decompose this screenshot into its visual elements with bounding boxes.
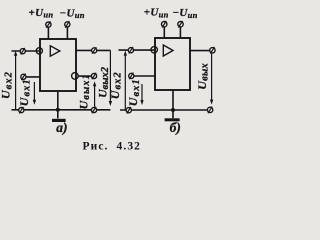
terminal -Uип (b): [178, 21, 183, 28]
voltage arrow Uвых1 (a): [93, 81, 96, 107]
inversion circle at input (b): [151, 47, 157, 53]
voltage arrow Uвых2 (a): [109, 50, 112, 106]
terminal output 1 (a): [92, 47, 97, 54]
terminal common right (b): [207, 107, 212, 114]
svg-text:4.32: 4.32: [117, 141, 142, 153]
svg-text:Uвх1: Uвх1: [126, 78, 142, 106]
svg-text:б): б): [170, 120, 181, 135]
op-amp U1 amplifier triangle: [50, 46, 60, 56]
ground (a): [52, 119, 66, 122]
terminal output 2 (a): [91, 73, 96, 80]
wire: inverting input (b): [119, 49, 156, 51]
op-amp U1 body (circuit a): [40, 39, 76, 91]
wire: output 2 (a): [78, 75, 91, 77]
wire: +supply stub (b): [163, 27, 165, 38]
terminal -Uип (a): [65, 21, 70, 28]
terminal output (b): [210, 47, 215, 54]
svg-text:а): а): [56, 120, 67, 135]
terminal input 1 (b): [129, 73, 134, 80]
svg-text:Рис.: Рис.: [83, 141, 109, 153]
terminal input 1 (a): [21, 74, 26, 81]
wire: output (b): [190, 50, 210, 52]
svg-text:+Uип: +Uип: [144, 7, 169, 20]
wire: -supply stub (a): [66, 27, 68, 39]
terminal common left (a): [19, 107, 24, 114]
wire: output 1 (a): [76, 49, 110, 51]
op-amp U2 body (circuit b): [155, 38, 190, 90]
svg-text:−Uип: −Uип: [60, 7, 85, 20]
svg-text:Uвых1: Uвых1: [76, 73, 92, 109]
junction node (a): [56, 108, 60, 112]
op-amp U2 amplifier triangle: [163, 45, 173, 56]
terminal input 2 (b): [128, 47, 133, 54]
terminal common right (a): [91, 107, 96, 114]
voltage arrow Uвх2 (b): [124, 51, 127, 110]
voltage arrow Uвых (b): [210, 54, 213, 105]
wire: ground stem (a): [57, 91, 59, 118]
wire: common rail (b): [120, 109, 207, 111]
junction node (b): [171, 108, 175, 112]
wire: non-inverting input (a): [23, 76, 40, 78]
wire: ground stem (b): [172, 90, 174, 118]
svg-text:Uвх1: Uвх1: [17, 78, 33, 106]
voltage arrow Uвх2 (a): [14, 51, 17, 110]
ground (b): [165, 118, 180, 121]
terminal +Uип (a): [46, 21, 51, 28]
terminal input 2 (a): [20, 48, 25, 55]
inversion circle at input (a): [36, 48, 42, 54]
inversion circle at output 2 (a): [72, 73, 79, 80]
wire: non-inverting input (b): [131, 75, 155, 77]
terminal common left (b): [126, 107, 131, 114]
svg-text:+Uип: +Uип: [29, 7, 54, 20]
terminal +Uип (b): [162, 21, 167, 28]
wire: -supply stub (b): [179, 27, 181, 38]
svg-text:−Uип: −Uип: [172, 7, 197, 20]
wire: +supply stub (a): [47, 27, 49, 39]
voltage arrow Uвх1 (b): [140, 84, 143, 105]
wire: inverting input (a): [12, 50, 41, 52]
svg-text:Uвых: Uвых: [195, 63, 211, 90]
voltage arrow Uвх1 (a): [33, 82, 36, 105]
svg-text:Uвх2: Uвх2: [0, 71, 14, 99]
wire: common rail (a): [12, 109, 111, 111]
